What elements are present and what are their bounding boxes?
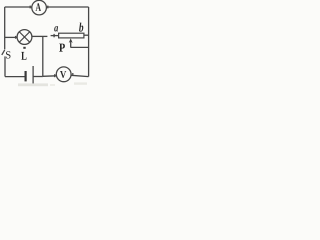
wire middle: left wire to lamp [5,36,18,38]
wire left side lower (switch to corner) [4,56,6,76]
battery negative plate (short thick) [25,71,27,81]
faint scan smudge bottom-left [18,83,48,86]
node tick left of voltmeter [54,74,56,77]
switch S blade [2,50,5,55]
wire right side vertical [88,7,90,77]
wire junction vertical (middle to bottom) [42,36,44,76]
ammeter U1 circle [32,0,47,15]
node tick left of ammeter [29,6,31,9]
wiper arrowhead [69,38,73,43]
wire junction to voltmeter [43,75,57,78]
wire top-left to ammeter [5,6,32,8]
label b [79,23,83,32]
wire wiper to right wire [71,46,89,48]
wiper arrow shaft [70,40,72,47]
voltmeter U2 circle [56,67,71,82]
ammeter label A [35,3,41,11]
faint scan smudge speck [50,84,55,86]
node tick left of lamp [15,36,17,39]
lamp L circle [17,30,32,45]
wire ammeter to top-right corner [47,6,89,8]
wire bottom-left to battery [5,76,25,78]
lamp cross stroke 2 [19,32,29,42]
label P [59,44,65,52]
wire rheostat right end b to right wire [84,34,89,36]
label S [6,51,10,58]
voltmeter label V [60,71,66,78]
node tick right of ammeter [47,6,49,9]
wire voltmeter to bottom-right corner [71,75,88,76]
label L [21,52,26,60]
wire to rheostat left end a [51,35,59,37]
node tick at rheostat left [53,34,55,37]
faint scan smudge bottom-right [74,82,87,84]
battery positive plate (long thin) [33,66,34,86]
label a [54,26,58,31]
wire lamp to T junction [32,35,48,37]
rheostat P body box [59,33,84,38]
lamp cross stroke 1 [19,32,29,42]
lamp bottom contact dot [23,47,25,49]
wire battery to junction [34,76,43,78]
node tick right of voltmeter [72,73,74,76]
wire left side upper (corner to switch) [4,7,6,49]
